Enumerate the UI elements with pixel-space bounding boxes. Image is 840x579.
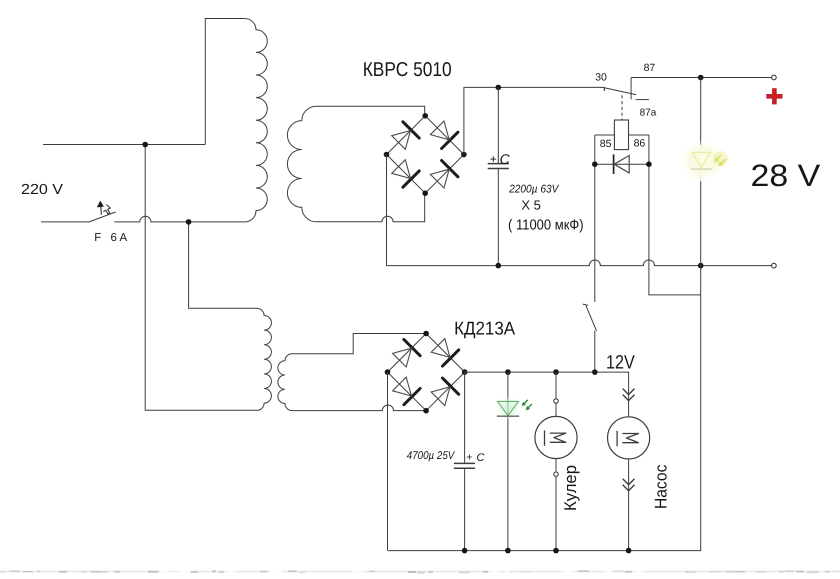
svg-text:28 V: 28 V [751, 158, 821, 193]
svg-text:Х 5: Х 5 [521, 198, 541, 213]
svg-text:85: 85 [600, 138, 612, 150]
svg-text:+: + [466, 452, 472, 464]
svg-text:4700µ 25V: 4700µ 25V [407, 450, 456, 462]
svg-text:+: + [490, 152, 497, 166]
svg-text:87: 87 [644, 62, 656, 74]
svg-text:2200µ 63V: 2200µ 63V [508, 183, 560, 195]
svg-text:86: 86 [634, 137, 646, 149]
svg-text:12V: 12V [606, 353, 635, 374]
svg-text:30: 30 [595, 71, 607, 83]
svg-text:КД213А: КД213А [454, 318, 516, 339]
svg-text:Кулер: Кулер [561, 465, 580, 511]
svg-text:КВРС 5010: КВРС 5010 [363, 59, 452, 81]
svg-text:87a: 87a [640, 108, 657, 119]
svg-text:C: C [477, 452, 485, 464]
svg-text:C: C [500, 151, 511, 167]
svg-text:Насос: Насос [651, 464, 670, 509]
svg-text:F: F [94, 232, 101, 244]
svg-text:( 11000 мкФ): ( 11000 мкФ) [508, 217, 584, 233]
svg-text:220 V: 220 V [21, 182, 63, 198]
svg-text:6 A: 6 A [111, 232, 128, 244]
